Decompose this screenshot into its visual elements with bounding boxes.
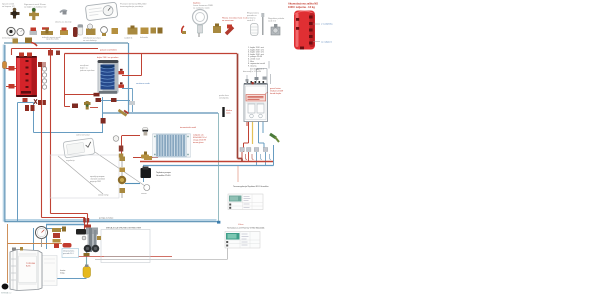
svg-text:pumpa za kotao: pumpa za kotao (99, 217, 114, 220)
svg-text:termoregulacija prostorije: termoregulacija prostorije (120, 5, 144, 8)
svg-text:Termostat za LG Therma V R32 M: Termostat za LG Therma V R32 Monoblok (227, 227, 264, 230)
svg-text:za bojler i za kotlove 1/2: za bojler i za kotlove 1/2 (24, 6, 47, 9)
svg-text:Termoregulacija/Toplotna NS1 G: Termoregulacija/Toplotna NS1 Grundfos (233, 185, 268, 188)
svg-text:spoj dva kotla: spoj dva kotla (46, 38, 60, 41)
svg-text:mulja: mulja (60, 272, 65, 274)
svg-text:bojler 200 l sa spiralom: bojler 200 l sa spiralom (97, 56, 119, 59)
svg-text:kapilara: kapilara (193, 2, 201, 5)
svg-text:razdelnik: razdelnik (124, 37, 133, 40)
svg-text:9. slavina: 9. slavina (248, 65, 257, 67)
svg-text:Grundfos 25-40: Grundfos 25-40 (156, 174, 171, 177)
svg-text:grejanja NS1: grejanja NS1 (90, 180, 101, 183)
svg-text:Q = 1.5 m3/h: Q = 1.5 m3/h (250, 71, 261, 73)
svg-text:termomanometar: termomanometar (2, 37, 18, 40)
svg-text:MESAJUCA GRUPA DISTRIBUTER: MESAJUCA GRUPA DISTRIBUTER (106, 227, 142, 230)
svg-text:LG-ce: LG-ce (238, 224, 244, 226)
svg-text:Akumulaciona zaliha NS: Akumulaciona zaliha NS (288, 2, 318, 6)
svg-text:Toplotna pumpa: Toplotna pumpa (156, 171, 172, 174)
svg-text:termostatski ventil: termostatski ventil (180, 126, 197, 129)
svg-text:termo glava: termo glava (193, 141, 204, 144)
svg-text:SHEMA rev: SHEMA rev (1, 292, 11, 295)
svg-text:sanitarna voda: sanitarna voda (136, 82, 150, 85)
svg-text:regulacija: regulacija (66, 160, 75, 162)
svg-text:sa kapom 1/2: sa kapom 1/2 (2, 6, 15, 8)
svg-text:1000 l zeljezna - 12 kg: 1000 l zeljezna - 12 kg (288, 5, 315, 9)
svg-text:slavina za tocenje: slavina za tocenje (55, 21, 72, 24)
svg-text:vodu 8 l: vodu 8 l (247, 20, 255, 22)
svg-text:polazni vod 50mm: polazni vod 50mm (100, 50, 117, 52)
svg-text:za sanitarnu vodu: za sanitarnu vodu (193, 7, 210, 10)
svg-text:dimovod: dimovod (243, 71, 251, 73)
svg-text:gas: gas (256, 69, 259, 71)
svg-text:sobni termostat: sobni termostat (76, 134, 90, 137)
svg-text:vode 1/2: vode 1/2 (268, 21, 277, 23)
svg-text:za recirkulaciju: za recirkulaciju (83, 39, 98, 42)
svg-text:za radijatore: za radijatore (321, 41, 333, 44)
svg-text:jednom spiralom: jednom spiralom (79, 70, 95, 72)
svg-text:voda: voda (226, 113, 231, 115)
svg-text:sa mrezicom: sa mrezicom (222, 19, 234, 22)
svg-text:posuda 50 l: posuda 50 l (63, 253, 74, 255)
svg-text:iz razdjelnika: iz razdjelnika (321, 24, 333, 26)
svg-text:kombi bojler: kombi bojler (270, 92, 282, 95)
svg-text:holender: holender (140, 36, 148, 39)
svg-text:senzor temp: senzor temp (98, 194, 108, 197)
svg-text:senzor: senzor (141, 192, 147, 195)
svg-text:zid objekta: zid objekta (219, 97, 229, 100)
